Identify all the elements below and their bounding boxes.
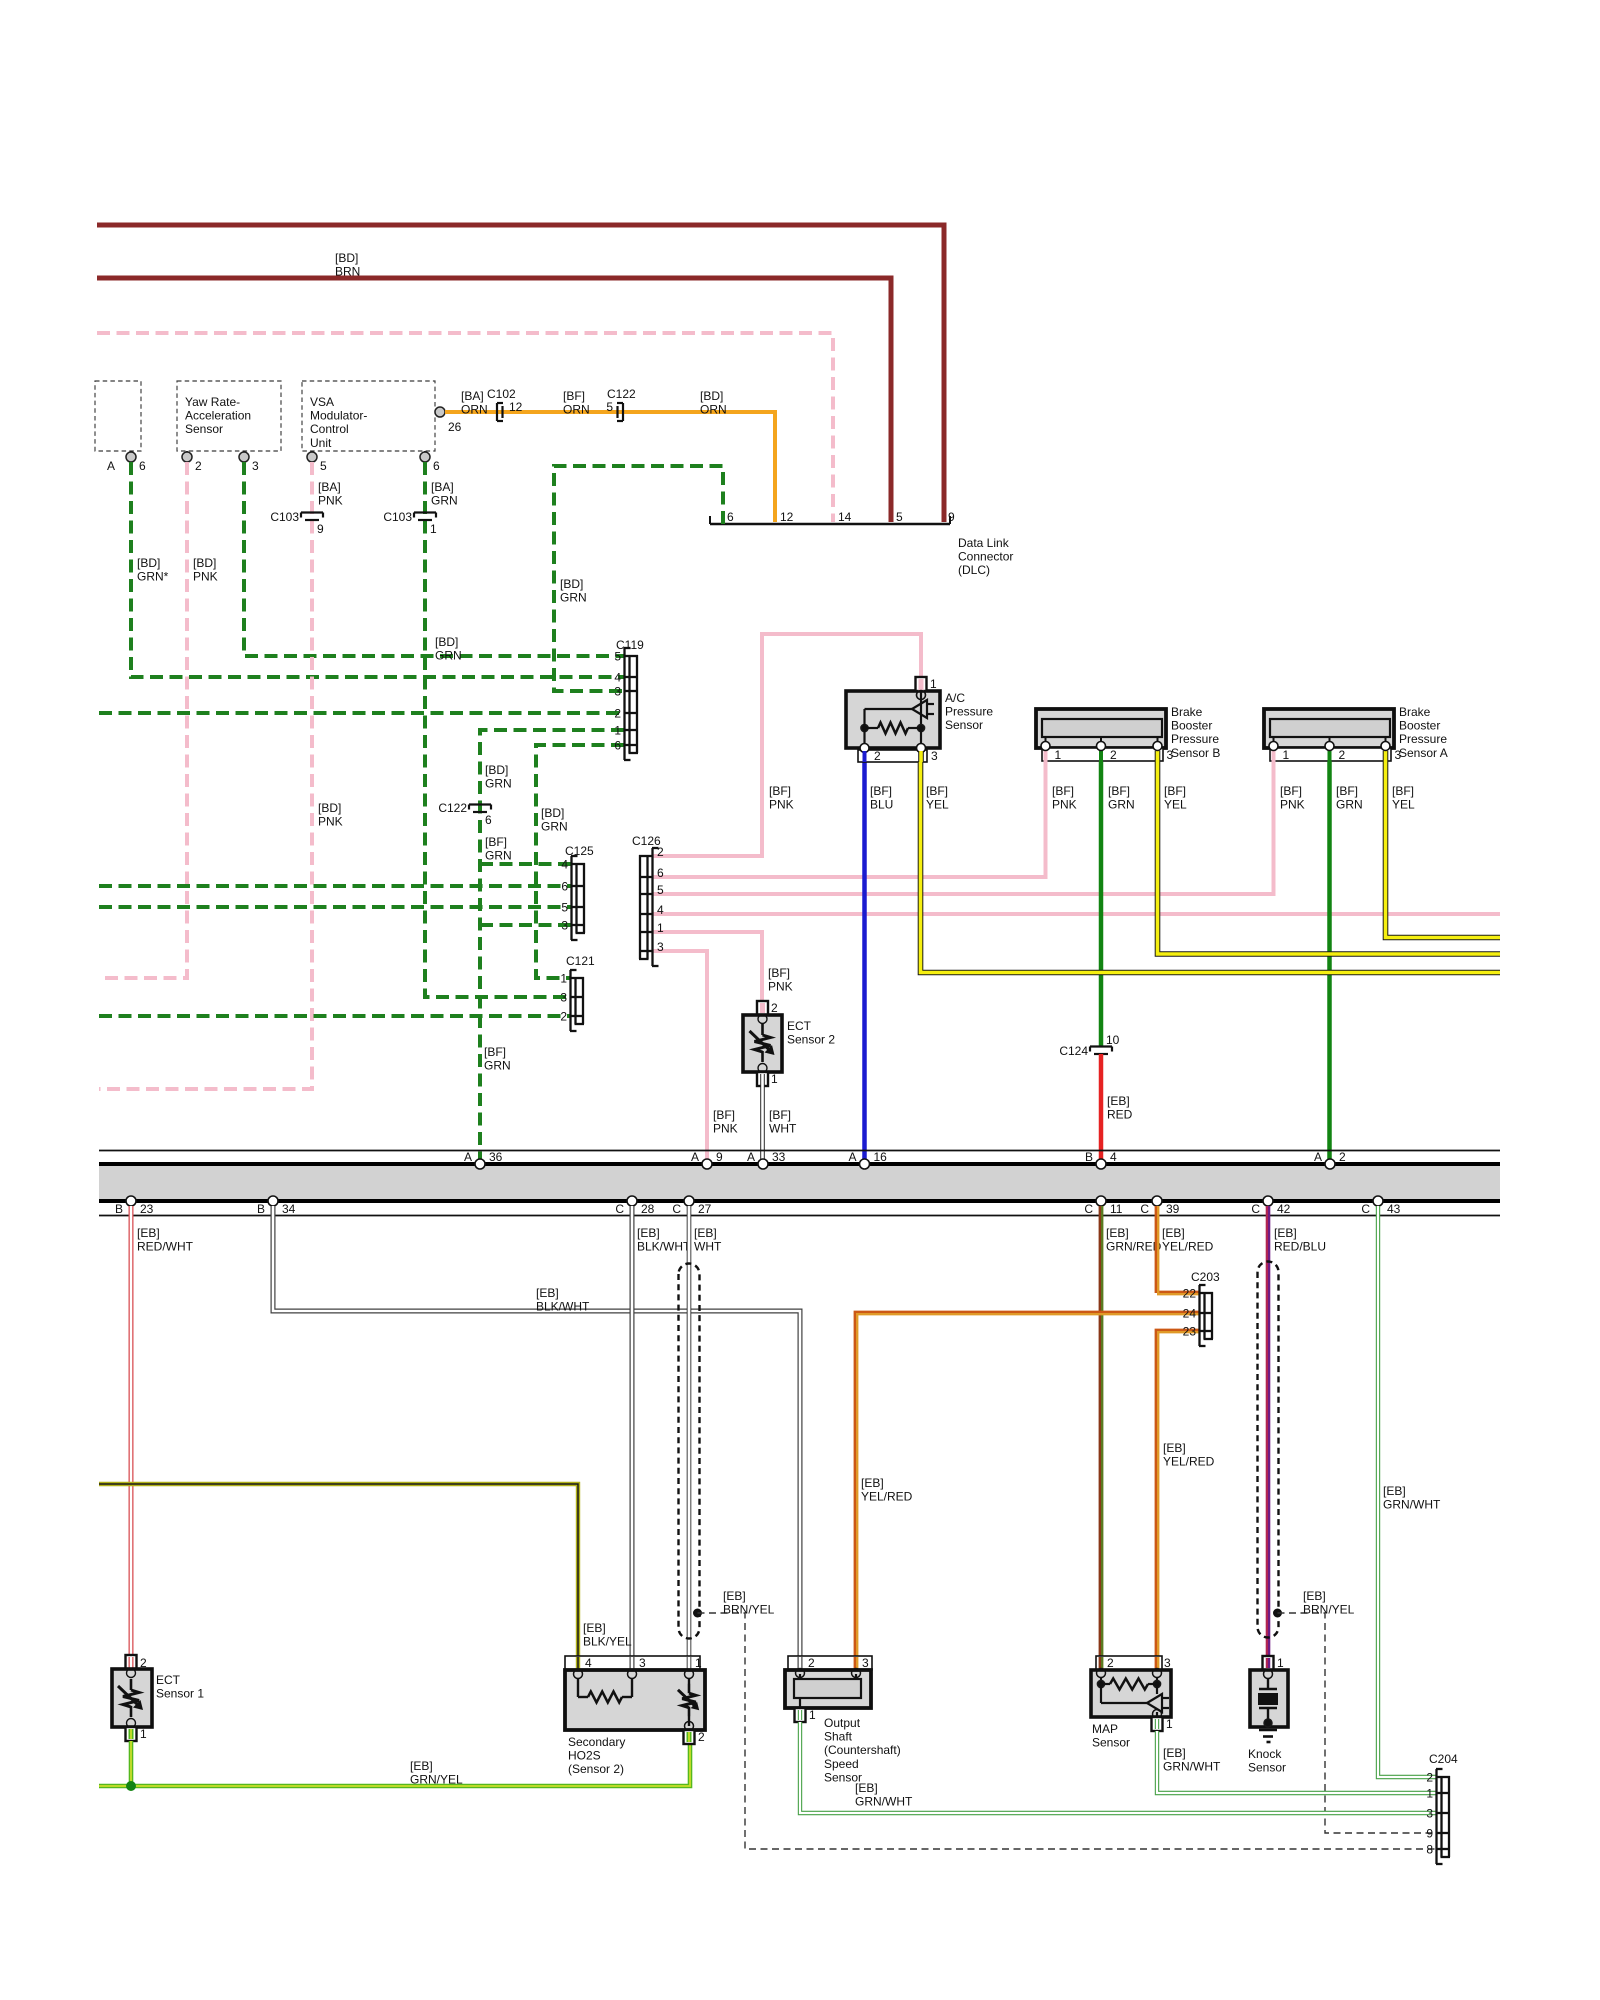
svg-text:[EB]: [EB]	[1303, 1589, 1326, 1603]
svg-text:Brake: Brake	[1171, 705, 1203, 719]
wire [BD] GRN C125 pin 5 from left edge	[99, 905, 571, 909]
pin 2 of yaw sensor	[186, 451, 188, 457]
svg-text:4: 4	[614, 671, 621, 685]
svg-text:[BA]: [BA]	[318, 480, 341, 494]
connector C119	[628, 655, 630, 753]
svg-text:A: A	[691, 1150, 699, 1164]
svg-text:6: 6	[614, 739, 621, 753]
svg-text:C103: C103	[270, 510, 299, 524]
svg-text:PNK: PNK	[1052, 798, 1077, 812]
svg-text:BRN/YEL: BRN/YEL	[1303, 1603, 1355, 1617]
svg-text:1: 1	[430, 522, 437, 536]
svg-text:23: 23	[1183, 1325, 1197, 1339]
svg-text:[BA]: [BA]	[461, 389, 484, 403]
svg-text:10: 10	[1106, 1033, 1120, 1047]
svg-text:C204: C204	[1429, 1752, 1458, 1766]
svg-text:[BF]: [BF]	[1164, 784, 1186, 798]
svg-text:26: 26	[448, 420, 462, 434]
ECM pin B34	[268, 1196, 278, 1206]
svg-text:[BF]: [BF]	[769, 784, 791, 798]
box unnamed module	[95, 381, 141, 451]
svg-text:4: 4	[1110, 1150, 1117, 1164]
svg-text:C125: C125	[565, 844, 594, 858]
wire [EB] GRN/RED C11 to MAP sensor pin 2	[1099, 1206, 1101, 1656]
svg-text:34: 34	[282, 1202, 296, 1216]
svg-text:5: 5	[606, 400, 613, 414]
svg-text:5: 5	[561, 901, 568, 915]
svg-text:11: 11	[1110, 1202, 1123, 1216]
wire tap to C125 pin 4	[480, 862, 571, 866]
svg-text:23: 23	[140, 1202, 154, 1216]
ECM pin A16	[860, 1159, 870, 1169]
wire [EB] RED/WHT B23 to ECT Sensor 1 pin 2	[129, 1206, 134, 1656]
svg-text:27: 27	[698, 1202, 712, 1216]
ECM pin C42	[1263, 1196, 1273, 1206]
wire [EB] GRN/YEL ECT1 pin1 to HO2S pin 2	[129, 1741, 134, 1786]
box VSA Modulator-Control Unit	[302, 381, 435, 451]
wire [BF] WHT ECT2 pin1 to ECM A33	[760, 1086, 765, 1159]
svg-text:14: 14	[838, 510, 852, 524]
svg-text:39: 39	[1166, 1202, 1180, 1216]
svg-text:2: 2	[808, 1656, 815, 1670]
svg-text:A: A	[1314, 1150, 1322, 1164]
svg-text:[EB]: [EB]	[1106, 1226, 1129, 1240]
shield around C42 wire	[1258, 1262, 1279, 1638]
svg-text:Data Link: Data Link	[958, 536, 1010, 550]
svg-text:ORN: ORN	[461, 403, 488, 417]
svg-text:C122: C122	[607, 387, 636, 401]
svg-text:Pressure: Pressure	[1171, 732, 1219, 746]
svg-text:RED: RED	[1107, 1108, 1133, 1122]
ECM pin C43	[1373, 1196, 1383, 1206]
svg-text:GRN/WHT: GRN/WHT	[1383, 1498, 1441, 1512]
svg-text:[EB]: [EB]	[861, 1476, 884, 1490]
pin 6 of VSA unit	[424, 451, 426, 457]
svg-text:GRN*: GRN*	[137, 570, 169, 584]
svg-text:1: 1	[1277, 1656, 1284, 1670]
wire [BF] PNK C126 pin4 to right edge	[653, 912, 1500, 916]
MAP Sensor	[1096, 1656, 1162, 1670]
svg-text:C124: C124	[1059, 1044, 1088, 1058]
Brake Booster Pressure Sensor A	[1264, 709, 1394, 748]
wire [BD] GRN* pin A6 to C119 pin 4	[131, 462, 624, 677]
svg-text:5: 5	[657, 883, 664, 897]
svg-text:42: 42	[1277, 1202, 1291, 1216]
svg-text:C: C	[1251, 1202, 1260, 1216]
svg-text:28: 28	[641, 1202, 655, 1216]
wire [EB] WHT C27 to HO2S pin 1	[687, 1206, 692, 1656]
svg-text:9: 9	[716, 1150, 723, 1164]
ECM pin A9	[702, 1159, 712, 1169]
svg-text:B: B	[115, 1202, 123, 1216]
svg-text:YEL: YEL	[1164, 798, 1187, 812]
svg-text:BRN/YEL: BRN/YEL	[723, 1603, 775, 1617]
pin 26 of VSA unit	[435, 407, 445, 417]
svg-text:[BF]: [BF]	[768, 966, 790, 980]
svg-text:3: 3	[561, 919, 568, 933]
svg-text:Speed: Speed	[824, 1757, 859, 1771]
connector C102	[496, 403, 498, 421]
svg-text:PNK: PNK	[713, 1122, 738, 1136]
svg-text:A: A	[464, 1150, 472, 1164]
svg-text:B: B	[257, 1202, 265, 1216]
svg-text:33: 33	[772, 1150, 786, 1164]
svg-text:3: 3	[657, 940, 664, 954]
connector C103 on green wire	[414, 511, 436, 513]
svg-text:[BF]: [BF]	[1108, 784, 1130, 798]
svg-text:C: C	[1140, 1202, 1149, 1216]
svg-text:1: 1	[614, 724, 621, 738]
wire [BF] YEL booster A pin3 to right edge	[1386, 762, 1501, 938]
wire BRN to DLC pin 9	[97, 225, 944, 522]
svg-text:BLK/WHT: BLK/WHT	[637, 1240, 691, 1254]
svg-text:3: 3	[931, 749, 938, 763]
svg-text:Sensor 2: Sensor 2	[787, 1033, 835, 1047]
svg-text:[EB]: [EB]	[410, 1759, 433, 1773]
svg-text:3: 3	[1164, 1656, 1171, 1670]
svg-text:Booster: Booster	[1171, 719, 1212, 733]
svg-text:[BF]: [BF]	[1052, 784, 1074, 798]
svg-text:[EB]: [EB]	[583, 1621, 606, 1635]
wire [BD] GRN C121 pin 2 from left edge	[99, 1014, 570, 1018]
svg-text:Yaw Rate-: Yaw Rate-	[185, 395, 240, 409]
connector C126	[646, 855, 648, 959]
box Yaw Rate-Acceleration Sensor	[177, 381, 281, 451]
svg-text:3: 3	[614, 685, 621, 699]
svg-text:C: C	[672, 1202, 681, 1216]
svg-text:2: 2	[657, 845, 664, 859]
svg-text:BLU: BLU	[870, 798, 893, 812]
svg-text:B: B	[1085, 1150, 1093, 1164]
svg-text:4: 4	[585, 1656, 592, 1670]
wire [BD] GRN C119 pin 2 from left edge	[99, 711, 624, 715]
svg-text:1: 1	[695, 1656, 702, 1670]
svg-text:A: A	[107, 459, 115, 473]
svg-text:ECT: ECT	[787, 1019, 812, 1033]
svg-text:4: 4	[561, 858, 568, 872]
wire [BF] BLU A/C pin2 to ECM A16	[862, 762, 867, 1159]
ECT Sensor 1	[126, 1655, 137, 1669]
svg-text:22: 22	[1183, 1287, 1197, 1301]
svg-text:RED/WHT: RED/WHT	[137, 1240, 194, 1254]
Brake Booster Pressure Sensor B	[1036, 709, 1166, 748]
svg-text:YEL/RED: YEL/RED	[1163, 1455, 1215, 1469]
svg-text:GRN: GRN	[484, 1059, 511, 1073]
svg-text:C122: C122	[438, 801, 467, 815]
svg-text:GRN/RED: GRN/RED	[1106, 1240, 1162, 1254]
ECM/PCM bus	[99, 1150, 1500, 1152]
svg-text:[BF]: [BF]	[926, 784, 948, 798]
svg-text:12: 12	[780, 510, 794, 524]
svg-text:(Countershaft): (Countershaft)	[824, 1743, 901, 1757]
svg-text:[EB]: [EB]	[1163, 1746, 1186, 1760]
wire [BA]/[BD] GRN VSA pin6 to C121 pin 3	[425, 462, 570, 997]
connector C122 on green wire	[469, 803, 491, 805]
ECM pin C39	[1152, 1196, 1162, 1206]
wire shield drain BRN/YEL to C204 pin 8	[698, 1613, 1437, 1849]
svg-text:12: 12	[509, 400, 523, 414]
svg-text:GRN: GRN	[560, 591, 587, 605]
ECM pin A33	[758, 1159, 768, 1169]
svg-text:6: 6	[139, 459, 146, 473]
svg-text:Brake: Brake	[1399, 705, 1431, 719]
svg-text:C121: C121	[566, 954, 595, 968]
wire [BA]/[BD] PNK VSA pin5 to left edge	[99, 462, 312, 1089]
wire ORN pin26 to DLC pin 12	[445, 412, 775, 522]
svg-text:C203: C203	[1191, 1270, 1220, 1284]
wire [BF] GRN booster B pin2 to C124	[1099, 762, 1104, 1046]
Secondary HO2S (Sensor 2)	[565, 1656, 700, 1670]
svg-text:Connector: Connector	[958, 550, 1013, 564]
svg-text:1: 1	[1055, 748, 1062, 762]
Output Shaft (Countershaft) Speed Sensor	[788, 1656, 872, 1670]
pin 3 of yaw sensor	[243, 451, 245, 457]
svg-text:YEL/RED: YEL/RED	[1162, 1240, 1214, 1254]
svg-text:Secondary: Secondary	[568, 1735, 625, 1749]
svg-text:[EB]: [EB]	[723, 1589, 746, 1603]
wire [EB] RED/BLU C42 to Knock Sensor pin 1	[1266, 1206, 1268, 1656]
pin A6 of unnamed module	[130, 451, 132, 457]
svg-text:2: 2	[771, 1001, 778, 1015]
svg-text:BLK/YEL: BLK/YEL	[583, 1635, 632, 1649]
connector C124	[1090, 1045, 1112, 1047]
svg-text:1: 1	[1426, 1787, 1433, 1801]
pin 5 of VSA unit	[311, 451, 313, 457]
svg-text:Pressure: Pressure	[945, 705, 993, 719]
svg-text:36: 36	[489, 1150, 503, 1164]
wire [BD] GRN C119 pin6 to C121 pin 1	[536, 745, 624, 978]
svg-text:GRN: GRN	[1336, 798, 1363, 812]
connector C125	[575, 863, 577, 933]
svg-text:3: 3	[639, 1656, 646, 1670]
svg-text:Booster: Booster	[1399, 719, 1440, 733]
svg-text:PNK: PNK	[318, 815, 343, 829]
svg-text:9: 9	[317, 522, 324, 536]
svg-text:(Sensor 2): (Sensor 2)	[568, 1762, 624, 1776]
svg-text:[BD]: [BD]	[335, 251, 358, 265]
svg-text:3: 3	[252, 459, 259, 473]
wire [BF] PNK C126 pin6 to Brake Booster B pin 1	[653, 762, 1046, 877]
svg-text:Acceleration: Acceleration	[185, 409, 251, 423]
svg-text:BRN: BRN	[335, 265, 360, 279]
A/C Pressure Sensor	[846, 691, 940, 748]
svg-text:1: 1	[1166, 1717, 1173, 1731]
svg-text:1: 1	[560, 972, 567, 986]
svg-text:[EB]: [EB]	[1383, 1484, 1406, 1498]
ECT Sensor 2	[757, 1001, 768, 1015]
wire shield drain BRN/YEL to C204 pin 9	[1278, 1613, 1437, 1833]
svg-text:Sensor 1: Sensor 1	[156, 1687, 204, 1701]
svg-text:C: C	[615, 1202, 624, 1216]
svg-text:4: 4	[657, 903, 664, 917]
svg-text:YEL/RED: YEL/RED	[861, 1490, 913, 1504]
Knock Sensor	[1263, 1656, 1274, 1670]
wire [BF] YEL A/C pin3 to right edge	[921, 762, 1501, 973]
wire [BF] YEL booster B pin3 to right edge	[1158, 762, 1501, 954]
svg-text:2: 2	[560, 1010, 567, 1024]
svg-text:1: 1	[657, 921, 664, 935]
svg-text:[BF]: [BF]	[1280, 784, 1302, 798]
svg-text:ECT: ECT	[156, 1673, 181, 1687]
svg-text:WHT: WHT	[694, 1240, 722, 1254]
svg-text:[EB]: [EB]	[637, 1226, 660, 1240]
svg-text:Sensor: Sensor	[1092, 1736, 1130, 1750]
connector C103 on pink wire	[301, 511, 323, 513]
svg-text:(DLC): (DLC)	[958, 563, 990, 577]
svg-text:[BF]: [BF]	[485, 835, 507, 849]
svg-text:Unit: Unit	[310, 436, 332, 450]
wire [BF] PNK C126 pin2 to A/C sensor pin 1	[653, 634, 921, 856]
wire [EB] BLK/WHT B34 to Output Shaft sensor pin 2	[273, 1206, 800, 1656]
connector C121	[574, 977, 576, 1024]
svg-text:GRN: GRN	[485, 849, 512, 863]
Data Link Connector (DLC) rail	[710, 523, 950, 526]
svg-text:PNK: PNK	[318, 494, 343, 508]
svg-text:PNK: PNK	[1280, 798, 1305, 812]
svg-text:GRN/WHT: GRN/WHT	[1163, 1760, 1221, 1774]
svg-text:YEL: YEL	[1392, 798, 1415, 812]
svg-text:3: 3	[862, 1656, 869, 1670]
svg-text:5: 5	[320, 459, 327, 473]
wire [BD] GRN C125 pin 6 from left edge	[99, 884, 571, 888]
svg-text:1: 1	[771, 1072, 778, 1086]
wire [EB] BLK/WHT C28 to HO2S pin 3	[630, 1206, 635, 1656]
shield around C27 wire	[679, 1264, 700, 1639]
wire [EB] YEL/RED C203 pin24 to Output Shaft sensor pin 3	[855, 1312, 1199, 1656]
svg-text:[BD]: [BD]	[318, 801, 341, 815]
ECM pin B4	[1096, 1159, 1106, 1169]
wire [EB] RED C124 to ECM B4	[1099, 1054, 1104, 1159]
svg-text:[EB]: [EB]	[536, 1286, 559, 1300]
svg-text:RED/BLU: RED/BLU	[1274, 1240, 1326, 1254]
svg-text:6: 6	[485, 813, 492, 827]
wire [BF] GRN booster A pin2 to ECM A2	[1327, 762, 1332, 1159]
svg-text:[BF]: [BF]	[713, 1108, 735, 1122]
ECM pin A36	[475, 1159, 485, 1169]
svg-text:[BD]: [BD]	[560, 577, 583, 591]
svg-text:9: 9	[1426, 1827, 1433, 1841]
wire [BD] GRN yaw pin3 to C119 pin 5	[244, 462, 624, 656]
svg-text:[BF]: [BF]	[1336, 784, 1358, 798]
svg-text:[EB]: [EB]	[137, 1226, 160, 1240]
svg-text:2: 2	[195, 459, 202, 473]
ECM pin C28	[627, 1196, 637, 1206]
svg-text:[BF]: [BF]	[563, 389, 585, 403]
svg-text:5: 5	[896, 510, 903, 524]
wire [BD] GRN DLC pin6 to C119 pin 3	[554, 466, 723, 691]
svg-text:PNK: PNK	[769, 798, 794, 812]
svg-text:[BD]: [BD]	[485, 763, 508, 777]
svg-text:PNK: PNK	[768, 980, 793, 994]
svg-text:43: 43	[1387, 1202, 1401, 1216]
svg-text:C: C	[1361, 1202, 1370, 1216]
svg-text:6: 6	[561, 880, 568, 894]
svg-text:[EB]: [EB]	[694, 1226, 717, 1240]
svg-text:Knock: Knock	[1248, 1747, 1282, 1761]
wire [BF] GRN C119 pin1 via C122 to ECM A36	[480, 730, 624, 1159]
svg-text:[BF]: [BF]	[1392, 784, 1414, 798]
svg-text:PNK: PNK	[193, 570, 218, 584]
svg-text:BLK/WHT: BLK/WHT	[536, 1300, 590, 1314]
svg-text:[BF]: [BF]	[484, 1045, 506, 1059]
svg-text:Sensor: Sensor	[1248, 1761, 1286, 1775]
svg-text:3: 3	[1426, 1807, 1433, 1821]
svg-text:[BD]: [BD]	[700, 389, 723, 403]
wire [EB] GRN/WHT MAP pin1 to C204 pin 1	[1157, 1731, 1436, 1793]
svg-text:Modulator-: Modulator-	[310, 409, 367, 423]
svg-text:Shaft: Shaft	[824, 1730, 853, 1744]
wire [EB] BLK/YEL to HO2S pin 4	[99, 1484, 578, 1656]
svg-text:[BD]: [BD]	[193, 556, 216, 570]
svg-text:9: 9	[948, 510, 955, 524]
svg-text:5: 5	[614, 650, 621, 664]
svg-text:Pressure: Pressure	[1399, 732, 1447, 746]
svg-text:Sensor A: Sensor A	[1399, 746, 1448, 760]
wire BRN to DLC pin 5	[97, 278, 891, 522]
svg-text:2: 2	[1426, 1771, 1433, 1785]
shield drain dot C27	[694, 1609, 702, 1617]
wire PNK dashed to DLC pin 14	[97, 333, 833, 522]
svg-text:[EB]: [EB]	[1163, 1441, 1186, 1455]
wire [BD] PNK yaw pin2 to left edge	[99, 462, 187, 978]
svg-text:6: 6	[657, 866, 664, 880]
svg-text:[EB]: [EB]	[1107, 1094, 1130, 1108]
svg-text:Sensor B: Sensor B	[1171, 746, 1220, 760]
wire [EB] GRN/WHT C43 to C204 pin 2	[1378, 1206, 1436, 1777]
wire [BF] PNK C126 pin1 to ECT Sensor 2 pin 2	[653, 932, 762, 1001]
svg-text:C102: C102	[487, 387, 516, 401]
svg-text:2: 2	[1339, 748, 1346, 762]
ECM pin C27	[684, 1196, 694, 1206]
ECM pin A2	[1325, 1159, 1335, 1169]
svg-text:24: 24	[1183, 1307, 1197, 1321]
wire [EB] YEL/RED C203 pin23 to MAP sensor pin 3	[1156, 1330, 1199, 1656]
svg-text:2: 2	[1110, 748, 1117, 762]
wire [BF] PNK C126 pin3 to ECM A9	[653, 951, 707, 1159]
wire tap to C125 pin 3	[480, 923, 571, 927]
svg-text:[BA]: [BA]	[431, 480, 454, 494]
svg-text:GRN: GRN	[435, 649, 462, 663]
svg-text:1: 1	[140, 1727, 147, 1741]
svg-text:A: A	[848, 1150, 856, 1164]
svg-text:6: 6	[433, 459, 440, 473]
svg-text:[BD]: [BD]	[137, 556, 160, 570]
svg-text:2: 2	[698, 1730, 705, 1744]
connector C203	[1203, 1292, 1205, 1339]
wire [EB] YEL/RED C39 to C203 pin 22	[1156, 1206, 1199, 1292]
junction dot GRN/YEL	[127, 1782, 136, 1791]
svg-text:Sensor: Sensor	[945, 718, 983, 732]
svg-text:16: 16	[874, 1150, 888, 1164]
wire [EB] GRN/WHT output pin1 to C204 pin 3	[800, 1722, 1436, 1813]
svg-text:[BD]: [BD]	[541, 806, 564, 820]
svg-text:Control: Control	[310, 422, 349, 436]
connector C204	[1440, 1776, 1442, 1857]
svg-text:GRN: GRN	[1108, 798, 1135, 812]
svg-text:2: 2	[614, 707, 621, 721]
svg-text:GRN: GRN	[485, 777, 512, 791]
svg-text:C103: C103	[383, 510, 412, 524]
svg-text:YEL: YEL	[926, 798, 949, 812]
svg-text:A/C: A/C	[945, 691, 965, 705]
svg-text:GRN: GRN	[431, 494, 458, 508]
svg-text:[BD]: [BD]	[435, 635, 458, 649]
svg-text:[EB]: [EB]	[1162, 1226, 1185, 1240]
svg-text:6: 6	[727, 510, 734, 524]
svg-text:WHT: WHT	[769, 1122, 797, 1136]
svg-text:C: C	[1084, 1202, 1093, 1216]
svg-text:[EB]: [EB]	[855, 1781, 878, 1795]
